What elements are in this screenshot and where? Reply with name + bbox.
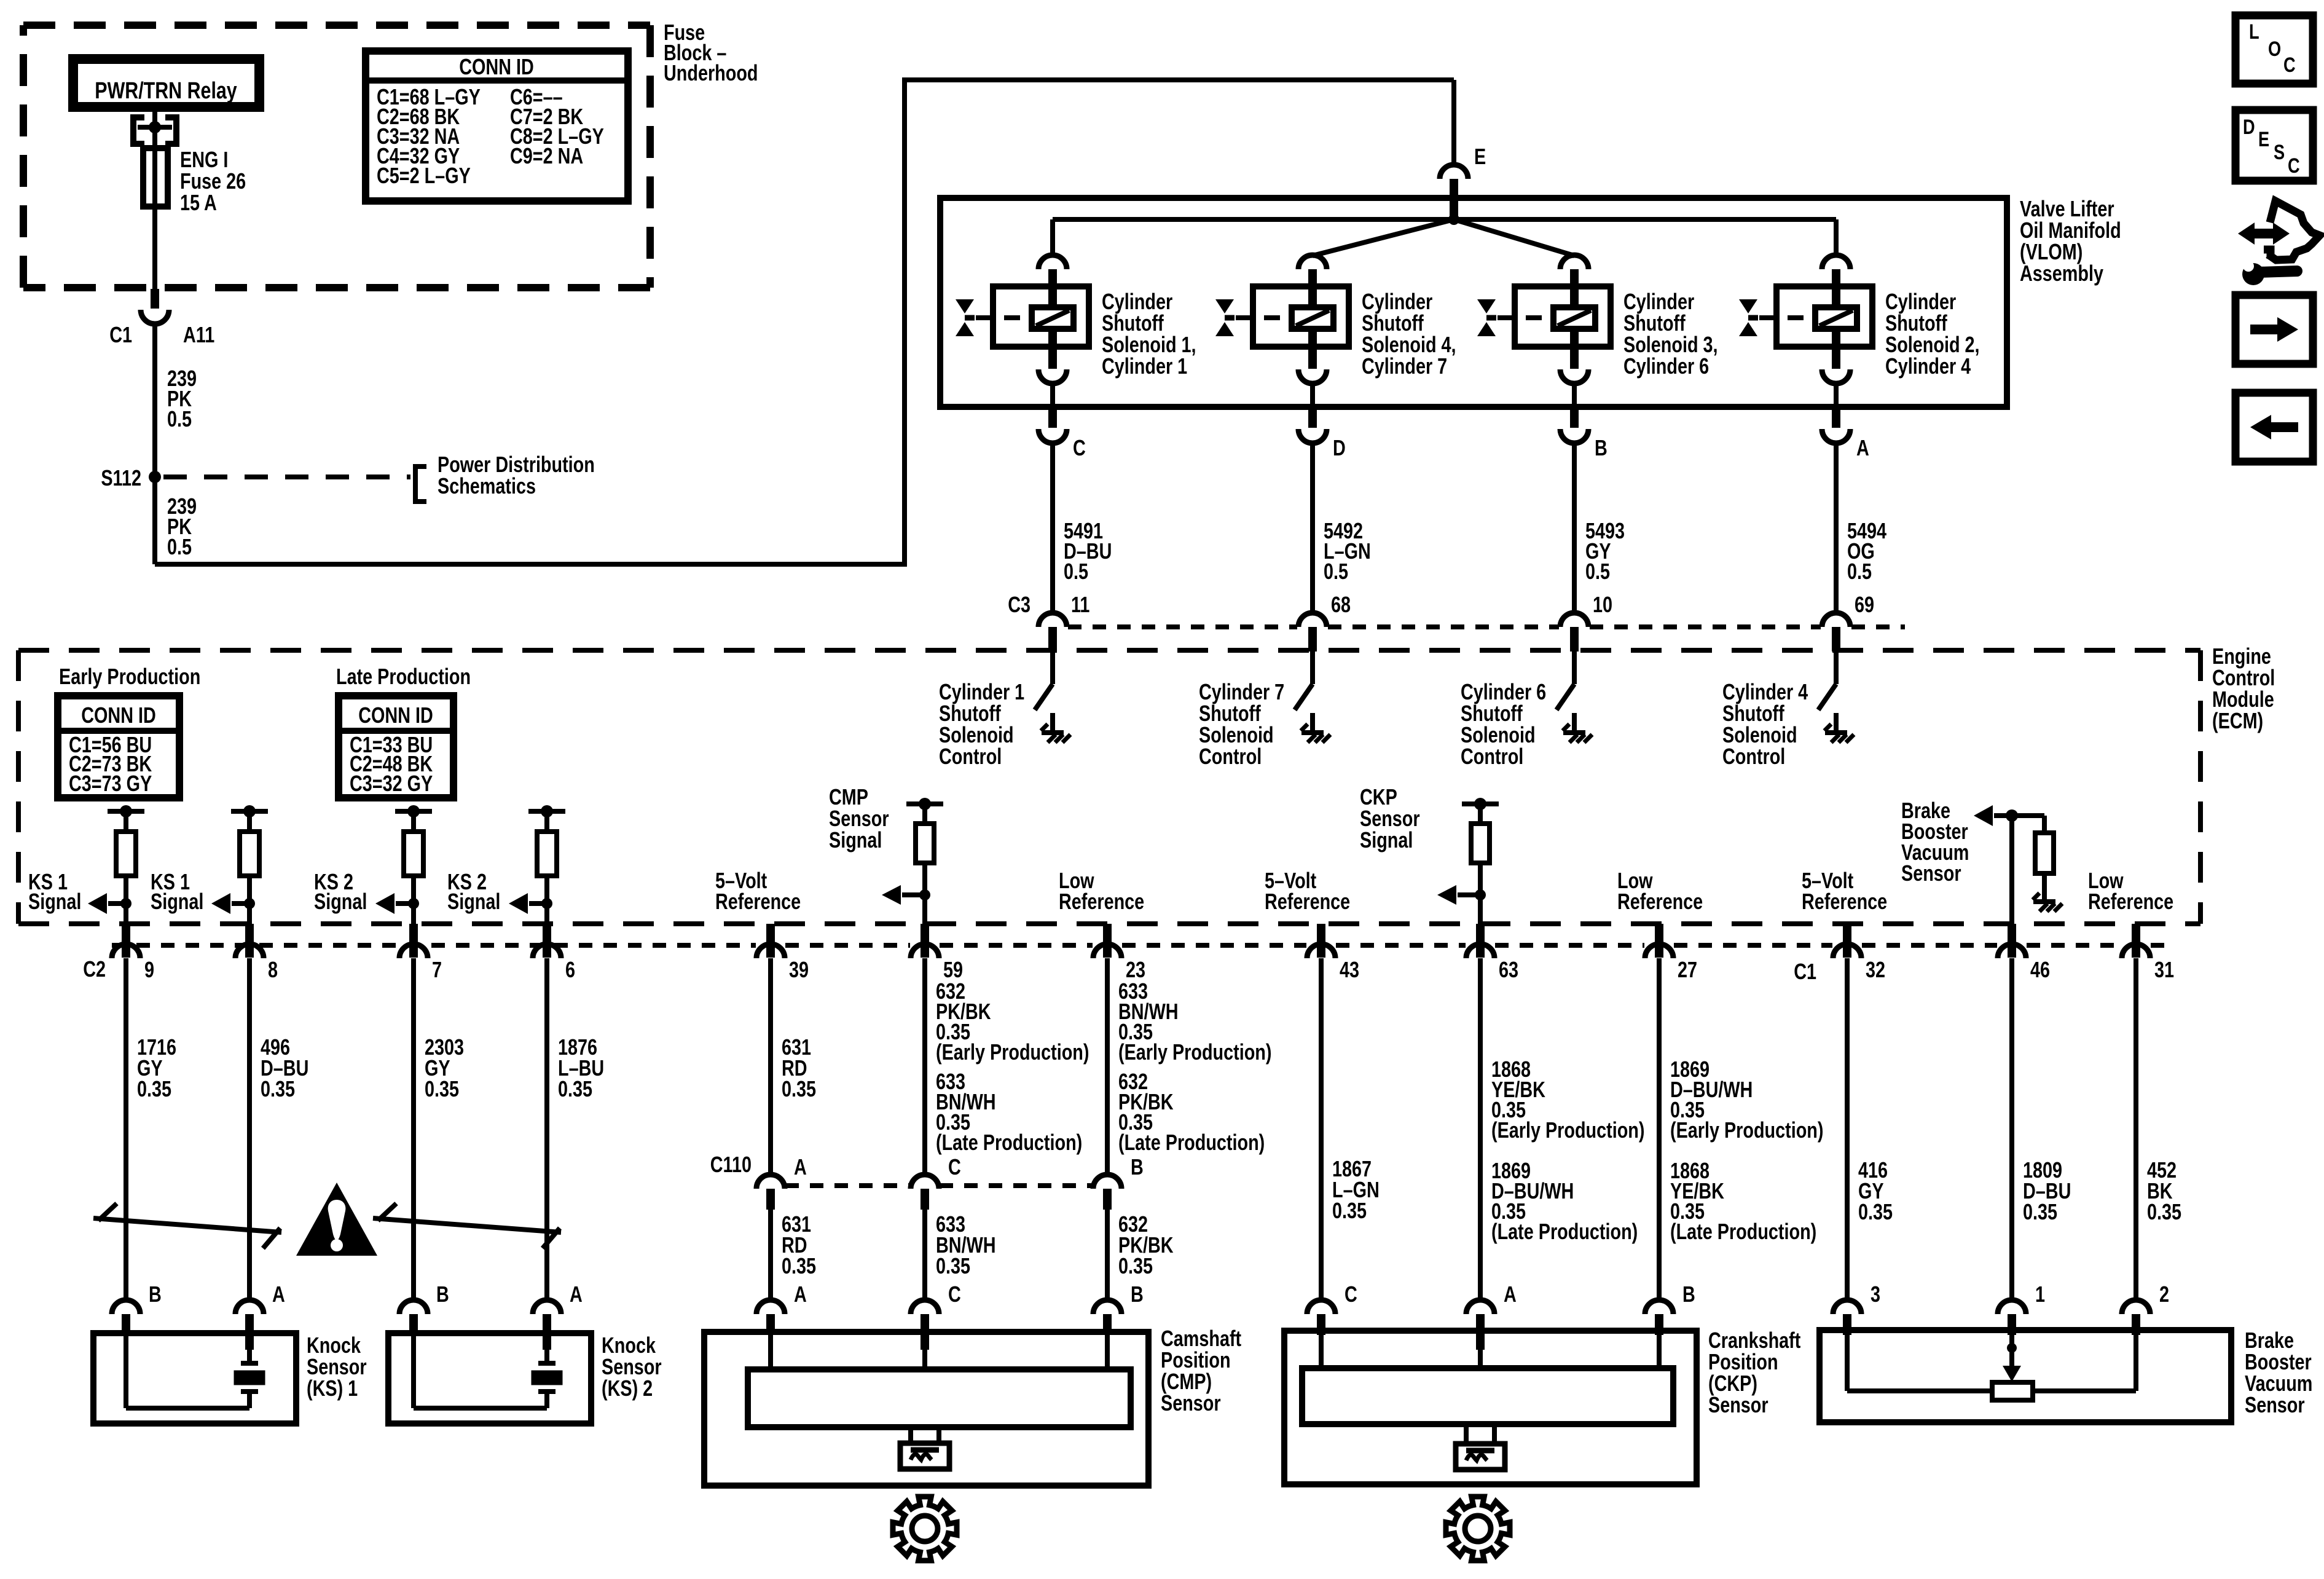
arrow CMP sensor signal xyxy=(902,892,925,897)
sensor connector B stub xyxy=(1655,1314,1663,1335)
CMP hall element xyxy=(900,1443,949,1469)
connector C3 pin 69 arc xyxy=(1822,613,1850,627)
knock sensor 2 connector B arc xyxy=(399,1300,428,1314)
warning triangle xyxy=(296,1183,377,1256)
icon DESC box xyxy=(2236,110,2313,181)
CKP inner element xyxy=(1302,1368,1673,1424)
svg-text:68: 68 xyxy=(1331,592,1351,617)
ECM late CONN ID table xyxy=(339,696,453,798)
splice S112 xyxy=(149,471,161,483)
svg-text:B: B xyxy=(436,1282,449,1307)
dashed actuation line L4 xyxy=(1236,315,1290,320)
connector C3 pin 68 stub xyxy=(1308,627,1317,652)
svg-text:Signal: Signal xyxy=(28,889,81,914)
CMP wire A xyxy=(768,1335,773,1369)
connector C110 B arc xyxy=(1093,1175,1121,1189)
svg-text:Cylinder 7: Cylinder 7 xyxy=(1362,353,1447,379)
wire resistor to pin 8 xyxy=(247,876,252,924)
fuse block underhood dashed box xyxy=(23,22,650,29)
ECM driver wire cylinder 1 xyxy=(1050,652,1055,684)
connector C pin 31 arc xyxy=(2122,944,2150,958)
CMP inner element xyxy=(748,1369,1131,1427)
svg-text:(Late Production): (Late Production) xyxy=(1670,1219,1816,1244)
svg-text:B: B xyxy=(1131,1154,1144,1179)
wire pin 23 to C110 xyxy=(1105,958,1110,1176)
VLOM connector D stub xyxy=(1308,409,1317,428)
wire riser to top xyxy=(902,77,907,567)
svg-text:(Early Production): (Early Production) xyxy=(1118,1039,1271,1065)
connector E stub xyxy=(1450,179,1458,216)
VLOM connector B stub xyxy=(1570,409,1579,428)
wire L1 to VLOM edge xyxy=(1050,384,1055,409)
svg-text:Signal: Signal xyxy=(1360,827,1413,853)
solenoid L2 bottom stub xyxy=(1832,329,1840,369)
VLOM connector A stub xyxy=(1832,409,1840,428)
svg-text:Control: Control xyxy=(1199,744,1262,769)
BBVS potentiometer xyxy=(1992,1382,2033,1400)
solenoid L1 top connector arc xyxy=(1038,255,1067,269)
wire resistor to pin 9 xyxy=(124,876,128,924)
pullup rail KS 1 col1 xyxy=(108,809,144,814)
arrow CKP sensor signal xyxy=(1458,892,1480,897)
KS1 internal B wire xyxy=(124,1335,128,1408)
knock sensor 1 connector B arc xyxy=(112,1300,140,1314)
wire pin 32 to sensor xyxy=(1845,958,1850,1300)
ground stub cylinder 6 xyxy=(1572,713,1577,731)
wire down to E connector xyxy=(1451,80,1456,164)
svg-text:A: A xyxy=(1504,1282,1517,1307)
CMP wire B xyxy=(1105,1335,1110,1369)
twisted pair mark KS1 xyxy=(93,1203,281,1248)
svg-text:Reference: Reference xyxy=(715,889,801,914)
connector C pin 31 stub xyxy=(2132,924,2140,958)
BBVS wire 1 xyxy=(2009,1333,2014,1348)
svg-text:(Early Production): (Early Production) xyxy=(1491,1117,1644,1143)
resistor CMP pullup xyxy=(922,804,927,824)
solenoid L3 bottom arc xyxy=(1560,369,1588,384)
svg-text:15 A: 15 A xyxy=(180,190,217,215)
resistor KS 2 col4 xyxy=(544,811,549,832)
solenoid L2 outer box xyxy=(1776,286,1872,347)
connector C3 pin 69 stub xyxy=(1832,627,1840,652)
connector C pin 63 arc xyxy=(1466,944,1494,958)
CKP sensor box xyxy=(1284,1331,1697,1484)
svg-text:7: 7 xyxy=(432,957,442,982)
solenoid L4 top stub xyxy=(1308,269,1317,307)
switch blade cylinder 7 xyxy=(1295,684,1313,710)
sensor connector 3 stub xyxy=(1843,1314,1851,1335)
VLOM connector A arc xyxy=(1822,429,1850,443)
svg-text:11: 11 xyxy=(1071,592,1089,617)
svg-text:39: 39 xyxy=(789,957,809,982)
svg-text:Signal: Signal xyxy=(151,889,203,914)
solenoid L1 outer box xyxy=(993,286,1089,347)
svg-text:Cylinder 1: Cylinder 1 xyxy=(1102,353,1187,379)
svg-text:27: 27 xyxy=(1678,957,1697,982)
wire 239 PK upper xyxy=(152,324,157,473)
svg-text:0.35: 0.35 xyxy=(782,1076,816,1101)
connector C pin 27 arc xyxy=(1645,944,1673,958)
svg-text:43: 43 xyxy=(1340,957,1359,982)
VLOM assembly box xyxy=(940,198,2007,407)
connector C pin 46 arc xyxy=(1998,944,2026,958)
wire bb junction down xyxy=(2009,816,2014,924)
svg-text:A: A xyxy=(570,1282,583,1307)
svg-text:(ECM): (ECM) xyxy=(2212,708,2263,733)
svg-text:E: E xyxy=(1474,144,1486,169)
CKP wire B xyxy=(1657,1335,1662,1368)
connector C pin 39 arc xyxy=(756,944,785,958)
wire pin 43 to sensor xyxy=(1319,958,1324,1300)
CKP wire C xyxy=(1319,1335,1324,1368)
VLOM connector D arc xyxy=(1298,429,1327,443)
solenoid L4 bottom arc xyxy=(1298,369,1327,384)
switch blade cylinder 4 xyxy=(1818,684,1836,710)
wire C110 to sensor B xyxy=(1105,1210,1110,1300)
fuse F26 ENG I body xyxy=(143,148,168,207)
connector C1 pin A11 arc xyxy=(141,310,169,324)
BBVS pot right wire xyxy=(2033,1388,2136,1393)
svg-text:(Late Production): (Late Production) xyxy=(936,1130,1082,1155)
connector C110 C arc xyxy=(911,1175,939,1189)
svg-text:(Late Production): (Late Production) xyxy=(1491,1219,1638,1244)
ground brake booster xyxy=(2033,899,2055,904)
solenoid L3 top stub xyxy=(1570,269,1579,307)
BBVS wire 3 xyxy=(1845,1333,1850,1391)
svg-text:C: C xyxy=(948,1154,961,1179)
wire 1716 down xyxy=(124,958,128,1300)
node fuse top junction xyxy=(149,121,161,133)
connector C2 pin 9 stub xyxy=(122,924,130,958)
svg-text:0.35: 0.35 xyxy=(2147,1199,2181,1224)
svg-text:Signal: Signal xyxy=(447,889,500,914)
knock sensor 1 connector B stub xyxy=(122,1314,130,1335)
solenoid L3 outer box xyxy=(1515,286,1611,347)
svg-text:A: A xyxy=(794,1282,807,1307)
signal arrow KS 1 xyxy=(108,901,126,906)
pullup rail KS 2 col4 xyxy=(528,809,565,814)
svg-text:Control: Control xyxy=(1461,744,1523,769)
resistor CKP pullup xyxy=(1478,804,1483,824)
signal junction KS 2 xyxy=(408,898,419,909)
CKP hall neck xyxy=(1464,1424,1469,1444)
connector C2 pin 7 stub xyxy=(409,924,418,958)
svg-text:C: C xyxy=(2288,154,2300,178)
svg-text:0.35: 0.35 xyxy=(1332,1198,1367,1223)
svg-text:C1: C1 xyxy=(1794,959,1816,984)
fuse clip right xyxy=(165,117,176,144)
valve symbol solenoid L1 xyxy=(956,299,974,313)
signal arrow KS 1 xyxy=(232,901,249,906)
CKP wire A xyxy=(1478,1350,1483,1368)
connector C2 pin 6 stub xyxy=(543,924,551,958)
svg-text:O: O xyxy=(2268,37,2281,61)
svg-text:B: B xyxy=(149,1282,162,1307)
resistor brake booster pulldown xyxy=(2035,833,2054,873)
ECM driver wire cylinder 7 xyxy=(1310,652,1315,684)
svg-text:Assembly: Assembly xyxy=(2020,261,2103,286)
svg-text:Control: Control xyxy=(939,744,1002,769)
BBVS wiper arrow xyxy=(2009,1348,2014,1367)
svg-text:(Early Production): (Early Production) xyxy=(1670,1117,1823,1143)
wire 496 down xyxy=(247,958,252,1300)
KS2 piezo element xyxy=(544,1350,549,1363)
signal junction KS 1 xyxy=(244,898,255,909)
connector C110 C stub xyxy=(921,1189,929,1210)
svg-text:8: 8 xyxy=(268,957,278,982)
connector C110 dotted row xyxy=(785,1183,910,1188)
wire resistor to pin 6 xyxy=(544,876,549,924)
connector C110 B stub xyxy=(1103,1189,1112,1210)
ground cylinder 4 xyxy=(1825,730,1847,735)
sensor connector 1 arc xyxy=(1998,1300,2026,1314)
svg-text:Schematics: Schematics xyxy=(438,473,536,498)
connector C2 pin 8 arc xyxy=(235,944,264,958)
junction CMP signal xyxy=(919,889,930,900)
fuse block CONN ID table xyxy=(366,51,628,201)
connector C pin 43 stub xyxy=(1317,924,1325,958)
signal junction KS 1 xyxy=(120,898,132,909)
valve symbol solenoid L4 xyxy=(1215,299,1234,313)
wire 5491 xyxy=(1050,443,1055,613)
svg-text:S112: S112 xyxy=(101,465,141,490)
sensor connector A stub xyxy=(766,1314,775,1335)
icon vehicle navigate xyxy=(2238,222,2255,245)
sensor connector B stub xyxy=(1103,1314,1112,1335)
svg-text:D: D xyxy=(2243,115,2255,139)
svg-text:6: 6 xyxy=(565,957,575,982)
svg-text:0.35: 0.35 xyxy=(782,1253,816,1278)
signal arrow KS 2 xyxy=(529,901,547,906)
svg-text:Reference: Reference xyxy=(1059,889,1144,914)
wire pin 59 to C110 xyxy=(922,958,927,1176)
connector C pin 23 stub xyxy=(1103,924,1112,958)
connector C pin 63 stub xyxy=(1476,924,1485,958)
svg-text:2: 2 xyxy=(2159,1282,2169,1307)
brake booster sensor box xyxy=(1820,1330,2231,1422)
svg-text:0.35: 0.35 xyxy=(1118,1253,1153,1278)
svg-text:Reference: Reference xyxy=(1265,889,1350,914)
svg-text:CONN ID: CONN ID xyxy=(81,703,156,728)
VLOM connector B arc xyxy=(1560,429,1588,443)
svg-text:0.35: 0.35 xyxy=(1858,1199,1893,1224)
connector C3 dotted row xyxy=(1068,624,1297,629)
svg-text:CONN ID: CONN ID xyxy=(358,703,433,728)
connector C pin 32 arc xyxy=(1833,944,1861,958)
solenoid L2 top connector arc xyxy=(1822,255,1850,269)
svg-text:0.5: 0.5 xyxy=(1324,559,1348,584)
svg-text:A: A xyxy=(1856,435,1869,460)
dashed actuation line L2 xyxy=(1759,315,1814,320)
BBVS wiper junction xyxy=(2007,1343,2017,1353)
sensor connector B arc xyxy=(1093,1300,1121,1314)
sensor connector C stub xyxy=(921,1314,929,1350)
svg-text:32: 32 xyxy=(1866,957,1885,982)
solenoid L4 outer box xyxy=(1253,286,1349,347)
resistor KS 1 col1 xyxy=(124,811,128,832)
ECM early CONN ID table xyxy=(58,696,179,798)
wire CKP resistor down xyxy=(1478,863,1483,924)
connector C pin 43 arc xyxy=(1307,944,1335,958)
svg-text:Reference: Reference xyxy=(1617,889,1703,914)
sensor connector A stub xyxy=(1476,1314,1485,1350)
connector C2-C1 dotted row xyxy=(112,943,756,948)
resistor KS 1 col2 xyxy=(247,811,252,832)
junction CKP signal xyxy=(1475,889,1486,900)
svg-text:C1: C1 xyxy=(109,322,132,347)
knock sensor 2 connector A stub xyxy=(543,1314,551,1350)
sensor connector 1 stub xyxy=(2008,1314,2016,1335)
solenoid L3 top connector arc xyxy=(1560,255,1588,269)
svg-text:C3: C3 xyxy=(1008,592,1030,617)
pullup rail CMP xyxy=(906,801,943,806)
CKP reluctor gear xyxy=(1446,1497,1510,1561)
svg-text:0.5: 0.5 xyxy=(167,406,192,431)
CMP reluctor gear xyxy=(893,1497,957,1561)
svg-text:C3=32 GY: C3=32 GY xyxy=(350,771,433,796)
svg-text:D: D xyxy=(1333,435,1346,460)
svg-text:B: B xyxy=(1682,1282,1695,1307)
connector C3 pin 10 stub xyxy=(1570,627,1579,652)
ground stub cylinder 4 xyxy=(1834,713,1839,731)
connector C pin 46 stub xyxy=(2008,924,2016,958)
CMP sensor box xyxy=(704,1332,1148,1486)
wire 1876 down xyxy=(544,958,549,1300)
svg-text:A: A xyxy=(272,1282,285,1307)
connector C3 pin 68 arc xyxy=(1298,613,1327,627)
svg-text:Reference: Reference xyxy=(2088,889,2173,914)
VLOM feed rail xyxy=(1053,217,1836,222)
solenoid L2 bottom arc xyxy=(1822,369,1850,384)
icon prev arrow box xyxy=(2236,393,2313,462)
node VLOM feed junction xyxy=(1448,214,1459,225)
knock sensor 1 connector A arc xyxy=(235,1300,264,1314)
wire L4 to VLOM edge xyxy=(1310,384,1315,409)
ground cylinder 1 xyxy=(1042,730,1064,735)
svg-text:Sensor: Sensor xyxy=(2245,1392,2305,1417)
wire S112 run right xyxy=(155,562,905,567)
connector C pin 23 arc xyxy=(1093,944,1121,958)
VLOM connector C arc xyxy=(1038,429,1067,443)
pullup rail CKP xyxy=(1462,801,1499,806)
icon next arrow box xyxy=(2236,295,2313,364)
solenoid L1 bottom stub xyxy=(1048,329,1057,369)
svg-text:C: C xyxy=(948,1282,961,1307)
diagonal to solenoid 4 xyxy=(1313,219,1454,256)
knock sensor 2 connector B stub xyxy=(409,1314,418,1335)
svg-text:Signal: Signal xyxy=(829,827,882,853)
svg-text:Signal: Signal xyxy=(314,889,367,914)
svg-text:S: S xyxy=(2274,140,2285,164)
knock sensor 2 connector A arc xyxy=(533,1300,561,1314)
svg-text:0.35: 0.35 xyxy=(137,1076,171,1101)
svg-text:Late Production: Late Production xyxy=(336,664,471,689)
icon LOC box xyxy=(2236,15,2313,84)
knock sensor KS1 box xyxy=(93,1333,296,1423)
svg-text:PWR/TRN Relay: PWR/TRN Relay xyxy=(95,78,237,104)
solenoid L1 coil xyxy=(1032,307,1074,329)
wire 2303 down xyxy=(411,958,416,1300)
svg-text:0.35: 0.35 xyxy=(936,1253,970,1278)
pullup rail KS 2 col3 xyxy=(395,809,432,814)
KS2 internal B wire xyxy=(411,1335,416,1408)
dashed actuation line L3 xyxy=(1498,315,1552,320)
svg-text:10: 10 xyxy=(1593,592,1612,617)
sensor connector 2 arc xyxy=(2122,1300,2150,1314)
relay K1 PWR/TRN Relay box xyxy=(73,59,259,107)
svg-text:69: 69 xyxy=(1855,592,1874,617)
twisted pair mark KS2 xyxy=(373,1203,561,1248)
svg-text:Cylinder 4: Cylinder 4 xyxy=(1885,353,1971,379)
svg-text:3: 3 xyxy=(1871,1282,1880,1307)
svg-text:CONN ID: CONN ID xyxy=(459,54,534,79)
solenoid L1 bottom arc xyxy=(1038,369,1067,384)
connector E arc xyxy=(1440,165,1468,179)
svg-text:1: 1 xyxy=(2035,1282,2045,1307)
sensor connector A arc xyxy=(1466,1300,1494,1314)
solenoid L3 bottom stub xyxy=(1570,329,1579,369)
connector C110 A arc xyxy=(756,1175,785,1189)
svg-text:Sensor: Sensor xyxy=(1708,1392,1769,1417)
svg-text:C2: C2 xyxy=(83,956,106,982)
VLOM connector C stub xyxy=(1048,409,1057,428)
wire 5492 xyxy=(1310,443,1315,613)
wire pin 63 to sensor xyxy=(1478,958,1483,1300)
ECM dashed box xyxy=(18,648,2200,653)
svg-text:0.35: 0.35 xyxy=(558,1076,592,1101)
wire L2 to VLOM edge xyxy=(1834,384,1839,409)
valve symbol solenoid L2 xyxy=(1739,299,1757,313)
connector C2 pin 8 stub xyxy=(245,924,254,958)
wire bb to resistor xyxy=(2012,813,2044,818)
connector C3 pin 11 stub xyxy=(1048,627,1057,652)
knock sensor 1 connector A stub xyxy=(245,1314,254,1350)
solenoid L3 coil xyxy=(1553,307,1595,329)
svg-text:Reference: Reference xyxy=(1802,889,1887,914)
BBVS pot left wire xyxy=(1847,1388,1992,1393)
wire resistor to pin 7 xyxy=(411,876,416,924)
sensor connector B arc xyxy=(1645,1300,1673,1314)
svg-text:(Late Production): (Late Production) xyxy=(1118,1130,1265,1155)
CMP wire C xyxy=(922,1350,927,1369)
wire pin 27 to sensor xyxy=(1657,958,1662,1300)
connector C3 pin 10 arc xyxy=(1560,613,1588,627)
switch blade cylinder 1 xyxy=(1035,684,1053,710)
svg-text:31: 31 xyxy=(2154,957,2174,982)
connector C2 pin 9 arc xyxy=(112,944,140,958)
svg-text:0.35: 0.35 xyxy=(261,1076,295,1101)
wire pin 31 to sensor xyxy=(2134,958,2138,1300)
svg-text:(Early Production): (Early Production) xyxy=(936,1039,1089,1065)
junction brake booster signal xyxy=(2006,809,2018,822)
svg-text:C: C xyxy=(2283,53,2296,77)
BBVS wire 2 xyxy=(2134,1333,2138,1391)
CMP hall neck xyxy=(908,1427,913,1443)
signal junction KS 2 xyxy=(541,898,552,909)
svg-text:Sensor: Sensor xyxy=(1161,1390,1221,1416)
svg-text:Sensor: Sensor xyxy=(1901,860,1961,886)
svg-text:C: C xyxy=(1345,1282,1357,1307)
svg-text:B: B xyxy=(1595,435,1608,460)
sensor connector C arc xyxy=(1307,1300,1335,1314)
connector C2 pin 7 arc xyxy=(399,944,428,958)
connector C pin 27 stub xyxy=(1655,924,1663,958)
svg-text:(KS) 1: (KS) 1 xyxy=(307,1376,358,1401)
knock sensor KS2 box xyxy=(388,1333,591,1423)
svg-text:0.35: 0.35 xyxy=(2023,1199,2057,1224)
svg-text:B: B xyxy=(1131,1282,1144,1307)
wire bb resistor to ground xyxy=(2042,873,2047,900)
